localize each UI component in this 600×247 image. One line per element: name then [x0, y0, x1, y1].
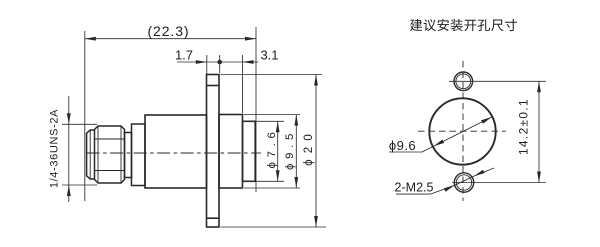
neck between nut and ring [125, 133, 132, 178]
dimension (22.3) extension lines [85, 27, 256, 201]
dimension (22.3) line with arrows [85, 38, 256, 40]
svg-text:(22.3): (22.3) [148, 23, 190, 39]
svg-text:ϕ20: ϕ20 [303, 128, 315, 166]
knurled ring [132, 124, 146, 186]
extension line through top hole [449, 80, 546, 82]
coupling nut (hex) [95, 126, 125, 183]
svg-text:2-M2.5: 2-M2.5 [395, 181, 434, 195]
extension line through bottom hole [452, 182, 546, 184]
svg-text:1/4-36UNS-2A: 1/4-36UNS-2A [48, 109, 60, 188]
connector front tip (threaded interface) [87, 130, 95, 179]
thread callout arrows [68, 96, 70, 202]
mounting view horizontal centerline [418, 130, 506, 132]
phi7.6 dimension line [277, 121, 279, 181]
dimension 3.1 line and outside arrow [207, 61, 258, 63]
main body cylinder [145, 115, 207, 188]
flange plate [207, 75, 220, 228]
bottom screw hole M2.5 [454, 173, 473, 192]
svg-text:1.7: 1.7 [175, 48, 193, 63]
svg-text:3.1: 3.1 [260, 48, 278, 63]
svg-text:ϕ9.6: ϕ9.6 [389, 138, 416, 153]
title 建议安装开孔尺寸 [410, 19, 517, 31]
thread callout extension lines [62, 124, 97, 185]
phi7.6 extension lines [257, 121, 285, 181]
main mounting hole circle phi9.6 [429, 98, 495, 164]
phi20 dimension line [315, 75, 317, 228]
2-M2.5 leader and diameter line [396, 168, 494, 194]
phi9.5 extension lines [244, 115, 300, 189]
phi20 extension lines [221, 75, 327, 228]
phi9.5 dimension line [295, 115, 297, 189]
rear section phi 9.5 [219, 115, 243, 189]
dimension 14.2 line [538, 81, 540, 182]
phi9.6 leader and diameter line [389, 117, 492, 152]
mounting view vertical centerline [462, 61, 464, 201]
dimension 1.7 leader and line [177, 61, 207, 63]
svg-text:ϕ7.6: ϕ7.6 [266, 127, 278, 168]
centerline of connector [87, 152, 261, 154]
dimension 1.7 / 3.1 extension lines [207, 55, 243, 113]
svg-text:14.2±0.1: 14.2±0.1 [517, 98, 531, 155]
junction dot [217, 60, 222, 65]
svg-text:ϕ9.5: ϕ9.5 [284, 129, 296, 170]
top screw hole M2.5 [454, 72, 473, 91]
rear section phi 7.6 [243, 121, 256, 181]
